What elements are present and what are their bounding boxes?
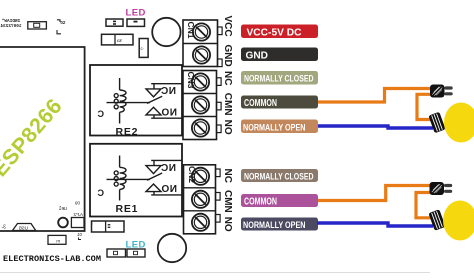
svg-text:NC: NC <box>161 86 176 97</box>
relay RE2 body <box>90 65 182 136</box>
svg-text:ue1: ue1 <box>58 206 67 212</box>
mounting hole (top) <box>152 18 180 46</box>
CN1 screw GND <box>193 46 210 63</box>
relay RE2 common line <box>107 102 151 104</box>
relay RE2 NO contact lead <box>151 115 182 118</box>
wire orange plug P2 to bulb L2 <box>416 193 433 218</box>
component U2 footprint <box>71 218 84 228</box>
bulb L2 glass <box>443 201 474 241</box>
svg-text:LED: LED <box>126 7 146 18</box>
bulb L1 lamp base <box>428 112 445 133</box>
svg-text:C: C <box>97 188 104 198</box>
CN2 screw NO <box>192 214 209 231</box>
svg-text:NC: NC <box>222 71 233 85</box>
svg-text:USB: USB <box>19 226 28 231</box>
svg-text:NORMALLY CLOSED: NORMALLY CLOSED <box>244 74 314 84</box>
wire blue NO1 to bulb L1 <box>318 126 433 128</box>
svg-text:NO: NO <box>161 108 177 119</box>
transistor Q1 <box>58 218 68 228</box>
terminal block CN1 body <box>183 20 222 67</box>
relay RE1 NO contact lead <box>151 192 182 195</box>
silkscreen text INDIA (mirrored) <box>0 19 21 29</box>
svg-text:C: C <box>97 109 104 119</box>
svg-text:3-: 3- <box>1 225 6 231</box>
CN3 screw CMN <box>192 96 209 113</box>
relay RE1 body <box>90 144 182 217</box>
LED footprint D1 <box>107 249 126 257</box>
USB connector <box>13 224 36 231</box>
CN1 screw VCC <box>193 23 210 40</box>
label box NORMALLY OPEN (CN2) <box>241 218 318 231</box>
svg-text:02: 02 <box>60 20 66 25</box>
label box COMMON (CN3) <box>241 96 318 110</box>
relay RE2 armature blade <box>147 96 162 103</box>
svg-text:AJ*2: AJ*2 <box>73 212 83 217</box>
svg-text:RE2: RE2 <box>116 126 139 138</box>
resistor pads R-bot-2 <box>127 249 145 257</box>
svg-text:COMMON: COMMON <box>244 196 277 207</box>
label box NORMALLY CLOSED (CN3) <box>241 71 318 85</box>
CN3 screw NC <box>192 73 209 90</box>
relay RE1 NO contact arrow <box>146 184 161 192</box>
svg-text:NORMALLY CLOSED: NORMALLY CLOSED <box>244 171 314 181</box>
svg-text:09: 09 <box>74 201 80 206</box>
relay RE1 coil <box>114 156 126 201</box>
svg-text:VCC: VCC <box>222 16 233 37</box>
label box GND <box>241 48 318 62</box>
resistor R-vert footprint <box>139 39 148 58</box>
plug P1 <box>430 85 453 98</box>
wire blue NO2 to bulb L2 <box>317 223 433 226</box>
LED footprint D2 <box>127 19 145 26</box>
svg-text:NO: NO <box>161 184 177 195</box>
relay RE2 coil <box>114 78 126 124</box>
svg-text:m: m <box>56 239 60 244</box>
ESP8266 module outline <box>0 47 85 231</box>
relay RE2 NO contact arrow <box>146 107 161 115</box>
svg-text:εƻ: εƻ <box>117 38 122 44</box>
svg-text:NO: NO <box>222 120 233 135</box>
relay RE1 NC contact arrow <box>146 166 161 174</box>
svg-text:c∙: c∙ <box>141 46 145 51</box>
relay RE2 NC contact arrow <box>146 89 161 97</box>
svg-text:COMMON: COMMON <box>244 98 277 109</box>
wire orange COMMON2 to plug P2 <box>318 186 433 201</box>
mounting hole (bottom) <box>158 234 186 262</box>
svg-text:RE1: RE1 <box>116 203 139 215</box>
label box COMMON (CN2) <box>241 194 318 207</box>
svg-text:GND: GND <box>246 50 269 61</box>
fiducial bracket <box>57 30 61 34</box>
bulb L2 lamp base <box>428 209 445 230</box>
relay RE1 NC contact lead <box>151 160 182 165</box>
page edge line <box>0 272 430 274</box>
svg-text:NO: NO <box>222 217 233 232</box>
label box NORMALLY CLOSED (CN2) <box>241 169 318 182</box>
svg-text:GND: GND <box>222 45 233 67</box>
svg-text:NORMALLY OPEN: NORMALLY OPEN <box>243 220 306 230</box>
connector J2 footprint <box>28 22 47 29</box>
svg-text:VCC-5V DC: VCC-5V DC <box>247 27 302 38</box>
label box NORMALLY OPEN (CN3) <box>241 120 318 134</box>
svg-text:CMN: CMN <box>222 93 233 116</box>
relay RE1 common line <box>107 178 151 180</box>
svg-text:10072234: 10072234 <box>0 24 21 29</box>
resistor pads R-top-1 <box>106 19 123 26</box>
terminal block CN3 body <box>183 71 221 140</box>
svg-text:CMN: CMN <box>222 190 233 213</box>
svg-text:NC: NC <box>161 163 176 174</box>
svg-text:NORMALLY OPEN: NORMALLY OPEN <box>243 122 306 132</box>
relay RE2 NC contact lead <box>151 84 182 89</box>
bulb L1 glass <box>444 103 474 143</box>
fiducial mark 02 <box>57 20 60 22</box>
capacitor C-top footprint <box>102 34 134 45</box>
CN3 screw NO <box>192 119 209 136</box>
diode D3 footprint <box>91 221 125 232</box>
svg-text:NC: NC <box>222 169 233 183</box>
relay RE1 armature blade <box>147 173 162 180</box>
wire orange COMMON1 to plug P1 <box>318 89 433 103</box>
CN2 screw CMN <box>192 191 209 208</box>
plug P2 <box>430 182 453 195</box>
terminal block CN2 body <box>184 165 221 234</box>
label box VCC-5V DC <box>241 25 318 39</box>
wire orange plug P1 to bulb L1 <box>417 94 433 119</box>
CN2 screw NC <box>192 168 209 185</box>
svg-text:ELECTRONICS-LAB.COM: ELECTRONICS-LAB.COM <box>3 254 101 264</box>
svg-text:01: 01 <box>76 232 82 237</box>
component R-bot footprint <box>48 235 66 244</box>
